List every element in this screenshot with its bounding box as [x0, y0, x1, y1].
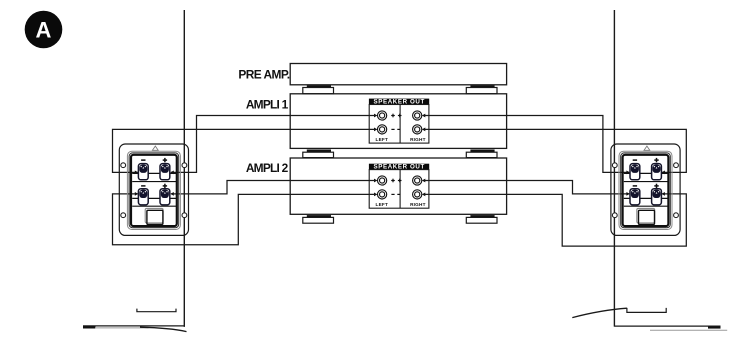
AMPLI 2 minus marks — [391, 193, 400, 195]
amplifier AMPLI 1 box — [290, 94, 506, 149]
AMPLI 2 SPEAKER OUT panel body — [369, 170, 429, 209]
wire W4 AMPLI2 LEFT - to left speaker row2 - — [113, 192, 376, 245]
left screw bottom-left — [121, 213, 126, 218]
left speaker bottom curve — [140, 327, 187, 331]
right minus mark row1 — [633, 159, 637, 161]
svg-text:A: A — [36, 18, 52, 43]
AMPLI 2 left foot — [303, 215, 334, 223]
AMPLI 1 minus marks — [391, 128, 400, 130]
AMPLI 2 terminal RIGHT + — [413, 176, 422, 185]
AMPLI 1 terminal RIGHT - — [413, 125, 422, 134]
left minus mark row2 — [141, 185, 145, 187]
AMPLI 2 arrow into LEFT + — [374, 179, 377, 183]
AMPLI 2 arrow into LEFT - — [374, 193, 377, 197]
right terminal panel frame — [623, 155, 669, 226]
AMPLI 1 panel divider — [399, 105, 401, 144]
right speaker terminal assembly — [611, 144, 680, 235]
wire W8 AMPLI2 RIGHT - to right speaker row2 right post — [424, 192, 686, 246]
AMPLI 2 right foot — [466, 215, 497, 223]
svg-text:RIGHT: RIGHT — [410, 137, 426, 142]
svg-text:LEFT: LEFT — [376, 137, 389, 142]
AMPLI 2 terminal RIGHT - — [413, 190, 422, 199]
AMPLI 2 plus marks — [391, 179, 401, 183]
svg-text:AMPLI 1: AMPLI 1 — [246, 97, 289, 111]
AMPLI 2 panel divider — [399, 170, 401, 209]
left speaker inner edge — [183, 10, 185, 327]
left screw top-right — [182, 163, 187, 168]
wire W1 AMPLI1 LEFT + to left speaker row1 + — [170, 116, 375, 175]
left divider row1 — [132, 181, 176, 183]
left speaker bottom shadow — [95, 327, 149, 329]
left speaker terminal assembly — [119, 144, 188, 235]
svg-text:AMPLI 2: AMPLI 2 — [246, 161, 289, 175]
left screw bottom-right — [182, 213, 187, 218]
pre-amp box — [290, 64, 506, 85]
pre-amp left foot — [303, 86, 334, 94]
wire W5 AMPLI1 RIGHT + to right speaker row1 left post — [424, 116, 629, 175]
AMPLI 1 right foot — [466, 150, 497, 158]
right screw bottom-right — [674, 213, 679, 218]
left speaker bottom thick dash — [83, 326, 96, 328]
right screw bottom-left — [612, 213, 617, 218]
AMPLI 1 arrow into RIGHT - — [422, 128, 425, 132]
right inner frame — [619, 151, 672, 229]
AMPLI 2 terminal LEFT + — [378, 176, 387, 185]
left inner frame — [127, 151, 180, 229]
left rail row2 — [132, 197, 176, 199]
left plus mark row1 — [163, 158, 167, 162]
left minus mark row1 — [141, 159, 145, 161]
right speaker bottom shadow — [650, 329, 727, 331]
left terminal panel frame — [131, 155, 177, 226]
left bottom plate square — [145, 208, 163, 224]
badge A — [25, 11, 63, 49]
left rail row1 — [132, 172, 176, 174]
AMPLI 1 arrow into LEFT - — [374, 128, 377, 132]
right speaker bottom thick dash — [708, 327, 721, 329]
AMPLI 1 terminal RIGHT + — [413, 111, 422, 120]
right screw top-left — [612, 163, 617, 168]
wire W7 AMPLI2 RIGHT + to right speaker row2 left post — [424, 181, 629, 196]
AMPLI 1 terminal LEFT - — [378, 125, 387, 134]
right screw top-right — [674, 163, 679, 168]
amplifier AMPLI 2 box — [290, 158, 506, 214]
svg-text:PRE AMP.: PRE AMP. — [238, 68, 289, 82]
AMPLI 1 arrow into LEFT + — [374, 114, 377, 118]
right bottom plate square — [637, 208, 655, 224]
left divider row2 — [132, 205, 176, 207]
right divider row2 — [624, 205, 668, 207]
AMPLI 2 terminal LEFT - — [378, 190, 387, 199]
left triangle marker — [152, 146, 158, 150]
left screw top-left — [121, 163, 126, 168]
left speaker bottom edge — [83, 325, 185, 327]
right rail row2 — [624, 197, 668, 199]
left plus mark row2 — [163, 184, 167, 188]
right binding post row2 minus — [630, 189, 640, 205]
right speaker bottom curve — [572, 308, 627, 317]
right speaker inner edge — [613, 10, 615, 327]
AMPLI 1 SPEAKER OUT panel body — [369, 105, 429, 144]
left outer plate — [119, 144, 188, 235]
svg-text:RIGHT: RIGHT — [410, 202, 426, 207]
svg-text:LEFT: LEFT — [376, 202, 389, 207]
right outer plate — [611, 144, 680, 235]
wire W2 AMPLI1 LEFT - to left speaker row1 - — [113, 129, 376, 174]
right rail row1 — [624, 172, 668, 174]
AMPLI 1 SPEAKER OUT panel header — [369, 99, 429, 106]
AMPLI 1 terminal LEFT + — [378, 111, 387, 120]
left binding post row1 minus — [138, 164, 148, 180]
AMPLI 1 left foot — [303, 150, 334, 158]
left binding post row1 plus — [160, 164, 170, 180]
AMPLI 2 SPEAKER OUT panel header — [369, 164, 429, 171]
AMPLI 2 arrow into RIGHT - — [422, 193, 425, 197]
right speaker foot bracket — [627, 308, 666, 313]
pre-amp right foot — [466, 86, 497, 94]
left binding post row2 minus — [138, 189, 148, 205]
AMPLI 1 plus marks — [391, 114, 401, 118]
left speaker foot bracket — [137, 309, 176, 312]
right plus mark row1 — [654, 158, 658, 162]
right speaker bottom edge — [614, 325, 720, 327]
right binding post row1 minus — [630, 164, 640, 180]
right binding post row1 plus — [652, 164, 662, 180]
right plus mark row2 — [654, 184, 658, 188]
left binding post row2 plus — [160, 189, 170, 205]
AMPLI 2 arrow into RIGHT + — [422, 179, 425, 183]
right triangle marker — [644, 146, 650, 150]
right divider row1 — [624, 181, 668, 183]
right binding post row2 plus — [652, 189, 662, 205]
right minus mark row2 — [633, 185, 637, 187]
AMPLI 1 arrow into RIGHT + — [422, 114, 425, 118]
wire W6 AMPLI1 RIGHT - to right speaker row1 right post — [424, 129, 686, 174]
wire W3 AMPLI2 LEFT + to left speaker row2 + — [170, 181, 375, 196]
